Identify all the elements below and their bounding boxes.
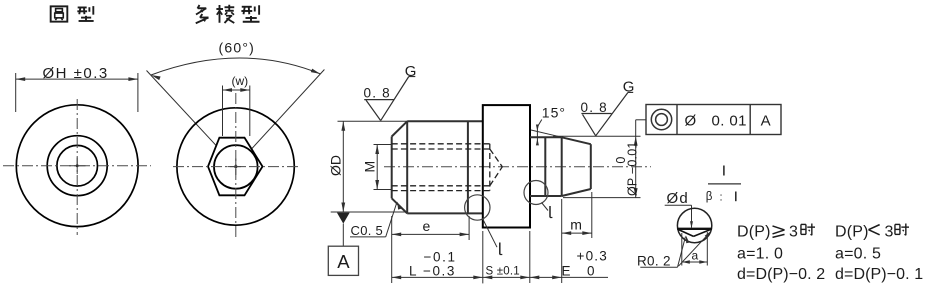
svg-text:d=D(P)−0. 1: d=D(P)−0. 1 (835, 266, 923, 283)
svg-text:+0.3: +0.3 (577, 248, 608, 263)
svg-text:e: e (423, 218, 431, 234)
svg-text:(60°): (60°) (219, 40, 256, 56)
svg-text:a=1. 0: a=1. 0 (737, 246, 783, 263)
svg-text:(w): (w) (232, 74, 249, 88)
svg-text:A: A (337, 251, 350, 272)
svg-text::: : (720, 192, 723, 204)
svg-text:A: A (761, 112, 771, 129)
svg-text:Ød: Ød (667, 190, 689, 207)
svg-text:0. 8: 0. 8 (581, 100, 608, 115)
svg-text:15°: 15° (542, 105, 566, 121)
svg-text:β: β (706, 191, 713, 203)
svg-text:D(P): D(P) (737, 223, 771, 240)
svg-text:ØD: ØD (328, 155, 344, 176)
svg-text:ØP −0.01: ØP −0.01 (625, 141, 639, 196)
svg-text:D(P): D(P) (835, 223, 869, 240)
svg-text:C0. 5: C0. 5 (351, 223, 384, 238)
svg-text:G: G (405, 63, 417, 80)
svg-text:−0.1: −0.1 (424, 249, 457, 264)
svg-text:3: 3 (789, 223, 798, 240)
svg-text:0. 8: 0. 8 (364, 86, 391, 101)
svg-text:0: 0 (587, 263, 595, 278)
svg-text:m: m (570, 216, 582, 232)
svg-text:M: M (362, 161, 378, 173)
svg-text:G: G (623, 79, 635, 96)
svg-text:0: 0 (614, 157, 628, 164)
svg-text:E: E (562, 263, 571, 278)
svg-text:L −0.3: L −0.3 (409, 264, 456, 279)
svg-text:ØH ±0.3: ØH ±0.3 (43, 65, 109, 82)
svg-text:0. 01: 0. 01 (712, 112, 747, 129)
svg-text:a=0. 5: a=0. 5 (835, 246, 881, 263)
svg-text:3: 3 (885, 223, 894, 240)
svg-text:S ±0.1: S ±0.1 (486, 265, 520, 277)
svg-text:Ø: Ø (685, 112, 697, 129)
svg-text:d=D(P)−0. 2: d=D(P)−0. 2 (737, 266, 825, 283)
svg-text:R0. 2: R0. 2 (637, 253, 671, 268)
